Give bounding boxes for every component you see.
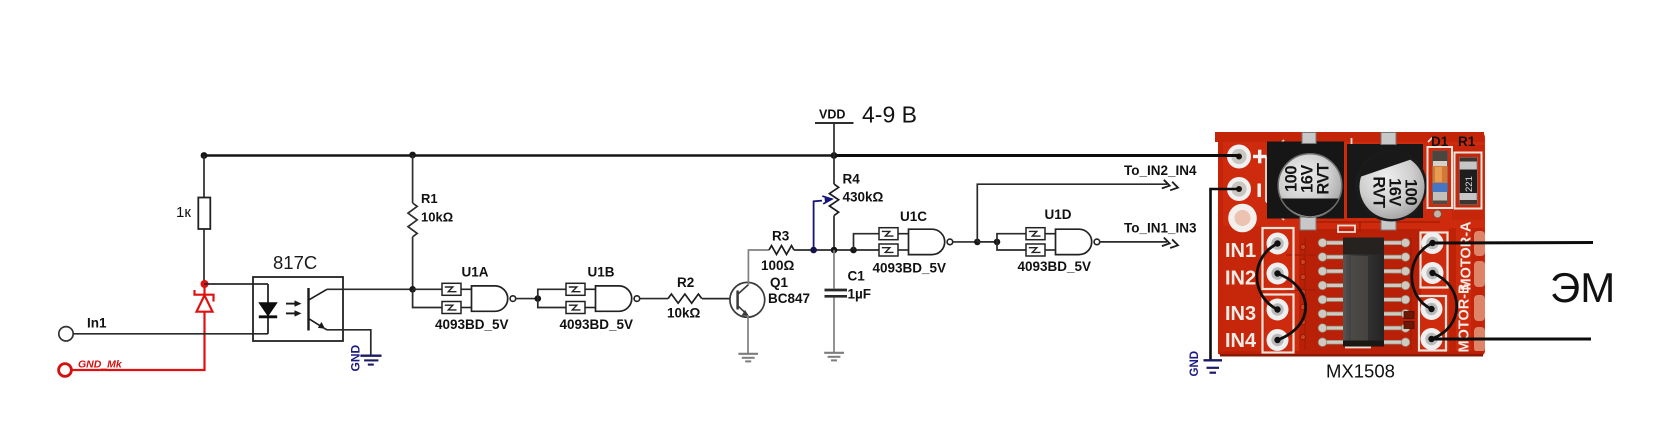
svg-text:430kΩ: 430kΩ (843, 190, 884, 205)
svg-text:In1: In1 (87, 316, 107, 331)
ground opto GND (349, 345, 382, 372)
pcb via near D1 (1434, 210, 1442, 218)
MX1508 PCB board (1215, 132, 1485, 357)
wire U1C out to U1D (977, 241, 997, 243)
capacitor cap1 bottom tab (1300, 217, 1316, 230)
svg-text:U1B: U1B (588, 265, 615, 280)
ground Q1 (738, 354, 758, 362)
wire U1A output (516, 298, 538, 300)
svg-text:MX1508: MX1508 (1326, 361, 1395, 382)
label MOTOR-A (1459, 221, 1475, 291)
smd parts left of MOTOR-B (1404, 312, 1414, 329)
wire R4 bottom lead (833, 216, 835, 250)
label IN4 (1225, 330, 1257, 352)
svg-text:4093BD_5V: 4093BD_5V (1018, 259, 1092, 274)
node junction bus-VDD (831, 152, 838, 159)
capacitor cap2 base (1347, 144, 1423, 218)
IC chip pins left (1318, 239, 1345, 347)
resistor R1 silkscreen box (1455, 153, 1482, 209)
wire U1D input branch (997, 234, 1026, 250)
jumper wire IN1-IN3 (1257, 244, 1278, 310)
svg-text:4093BD_5V: 4093BD_5V (873, 261, 947, 276)
pad MOTOR-A1 (1422, 232, 1444, 254)
svg-text:Q1: Q1 (770, 275, 789, 290)
wire 1k top lead (203, 156, 205, 199)
pcb via dots column (1300, 244, 1305, 339)
wire 1k bottom lead (203, 229, 205, 284)
svg-text:100Ω: 100Ω (761, 258, 795, 273)
label IN3 (1225, 303, 1256, 325)
svg-text:BC847: BC847 (768, 291, 810, 306)
pad IN1 (1267, 233, 1289, 255)
svg-text:R4: R4 (843, 172, 861, 187)
nand-gate U1A (435, 265, 516, 333)
svg-text:RVT: RVT (1315, 163, 1333, 195)
wire VDD to bus (833, 123, 835, 156)
node junction R4-C1 (831, 247, 838, 254)
transistor Q1 BC847 (730, 275, 810, 317)
capacitor cap1 (100 16V RVT) (1278, 154, 1342, 218)
resistor R1(smd) label (1458, 134, 1476, 149)
jumper wire MOTORA2-MOTORB2 (1432, 273, 1457, 339)
svg-text:R2: R2 (677, 275, 694, 290)
wire minus pad to ground (1211, 189, 1240, 360)
capacitor cap2 bottom tab (1381, 217, 1396, 230)
wire U1D output To_IN1_IN3 (1100, 241, 1167, 243)
wire R2 to Q1 base (702, 298, 730, 300)
wire bus to R4 (833, 156, 835, 185)
svg-text:10kΩ: 10kΩ (421, 210, 453, 225)
diode D1 label (1431, 134, 1449, 149)
wire U1B output to R2 (640, 298, 668, 300)
wire MOTOR-A1 to EM (1433, 241, 1594, 245)
node junction zener-anode-net (red) (201, 280, 209, 288)
svg-text:IN1: IN1 (1225, 240, 1256, 262)
node junction U1D branch (994, 239, 1001, 246)
svg-text:MOTOR-A: MOTOR-A (1459, 221, 1475, 291)
node junction R1-opto-U1A (409, 286, 416, 293)
solder joints on pads (1274, 240, 1435, 343)
resistor R2 10k (667, 275, 702, 321)
diode D1 body (1433, 151, 1448, 204)
jumper wire IN2-IN4 (1278, 274, 1306, 341)
label IN1 (1225, 240, 1256, 262)
svg-text:To_IN1_IN3: To_IN1_IN3 (1124, 221, 1197, 236)
svg-text:4093BD_5V: 4093BD_5V (560, 317, 634, 332)
svg-text:VDD: VDD (819, 108, 845, 122)
svg-text:RVT: RVT (1370, 176, 1388, 208)
wire Q1 collector to R3 (748, 250, 769, 285)
resistor R1 smd body (1460, 158, 1478, 205)
resistor R4 430k potentiometer (829, 172, 883, 216)
svg-text:4-9 В: 4-9 В (862, 102, 917, 128)
pad plus (1227, 145, 1251, 169)
svg-text:1µF: 1µF (848, 287, 872, 302)
svg-text:4093BD_5V: 4093BD_5V (435, 317, 509, 332)
capacitor cap1 top tab (1302, 133, 1316, 144)
svg-text:IN3: IN3 (1225, 303, 1256, 325)
pad minus (1227, 177, 1251, 201)
svg-text:GND: GND (349, 345, 363, 372)
net arrow To_IN1_IN3 (1124, 221, 1197, 250)
svg-text:GND: GND (1189, 351, 1201, 377)
svg-text:R1: R1 (421, 191, 438, 206)
svg-text:GND_Mk: GND_Mk (78, 359, 123, 371)
pad MOTOR-A2 (1422, 262, 1444, 284)
silkscreen box IN3-IN4 (1263, 295, 1294, 353)
svg-text:IN4: IN4 (1225, 330, 1257, 352)
wire zener node to opto LED anode (204, 283, 268, 285)
nand-gate U1C (873, 209, 953, 276)
node junction wiper (810, 247, 817, 254)
power VDD (815, 102, 917, 128)
svg-text:IN2: IN2 (1225, 268, 1256, 290)
wire U1C output (953, 241, 978, 243)
pad IN4 (1267, 329, 1289, 351)
IC chip pins right (1383, 239, 1410, 347)
wire zener to GND_Mk (red) (72, 311, 205, 370)
node junction U1C out (974, 239, 981, 246)
svg-text:U1C: U1C (900, 209, 927, 224)
diode D zener (red) (195, 284, 214, 312)
node junction bus-left (201, 152, 208, 159)
silkscreen box IN1-IN2 (1263, 228, 1294, 289)
capacitor C1 1uF (825, 250, 872, 353)
port In1 (59, 316, 107, 341)
silkscreen cap outlines (1266, 137, 1433, 347)
pad IN2 (1267, 263, 1289, 285)
wire R1 bottom lead (412, 237, 414, 289)
ground C1 (824, 353, 844, 361)
svg-text:R1: R1 (1458, 134, 1476, 149)
resistor R3 100 (761, 229, 795, 274)
diode D1 silkscreen box (1428, 147, 1453, 208)
node junction U1A-U1B (535, 295, 542, 302)
wire opto collector to node (327, 288, 413, 290)
wire Q1 emitter to ground (747, 315, 749, 354)
mounting hole (1228, 204, 1257, 233)
wire MOTOR-B2 to EM (1432, 338, 1592, 341)
node junction bus-R1 (409, 152, 416, 159)
jumper wire MOTORA1-MOTORB1 (1412, 243, 1433, 309)
capacitor cap2 top tab (1381, 133, 1396, 145)
pad MOTOR-B2 (1421, 328, 1443, 350)
svg-text:817C: 817C (273, 252, 317, 273)
wire to To_IN2_IN4 (977, 184, 1167, 242)
opto phototransistor (309, 288, 328, 331)
resistor R 1k (176, 198, 210, 230)
wire R1 top lead (412, 155, 414, 203)
opto-coupler U2 817C box (253, 252, 343, 341)
opto light arrows (286, 300, 302, 316)
pad IN3 (1267, 299, 1289, 321)
label EM (electromagnet) (1550, 264, 1615, 311)
svg-text:U1D: U1D (1045, 207, 1072, 222)
svg-text:221: 221 (1464, 176, 1475, 192)
svg-text:MOTOR-B: MOTOR-B (1457, 283, 1473, 352)
port GND_Mk (59, 359, 123, 377)
svg-text:1к: 1к (176, 204, 191, 221)
label MX1508 (1326, 361, 1395, 382)
opto LED (258, 284, 278, 334)
pcb trace details (1286, 222, 1440, 350)
pad MOTOR-B1 (1421, 298, 1443, 320)
svg-text:R3: R3 (772, 229, 790, 244)
label MOTOR-B (1457, 283, 1473, 352)
wire opto emitter to ground (324, 328, 371, 355)
capacitor cap2 (100 16V RVT) (1355, 150, 1427, 222)
silkscreen box MOTOR-B pads (1419, 296, 1446, 351)
R4 wiper arrow (blue) (814, 196, 832, 250)
wire U1C top input branch (854, 234, 880, 250)
svg-text:ЭМ: ЭМ (1550, 264, 1615, 311)
nand-gate U1D (1018, 207, 1100, 274)
ground module GND (1189, 351, 1222, 377)
svg-text:U1A: U1A (462, 265, 489, 280)
resistor R1 10k (408, 191, 453, 237)
capacitor cap1 base (1267, 142, 1344, 219)
IC chip MX1508 body (1343, 238, 1384, 347)
silkscreen box MOTOR-A pads (1421, 233, 1448, 288)
plus symbol (1253, 150, 1267, 164)
svg-text:To_IN2_IN4: To_IN2_IN4 (1124, 163, 1197, 178)
minus symbol (1257, 184, 1260, 198)
svg-text:C1: C1 (848, 269, 866, 284)
label IN2 (1225, 268, 1256, 290)
wire VDD bus (204, 154, 1239, 157)
node junction U1C branch (850, 247, 857, 254)
svg-text:10kΩ: 10kΩ (667, 306, 701, 321)
wire U1A input branch (413, 289, 442, 307)
wire U1B input branch (538, 289, 566, 307)
net arrow To_IN2_IN4 (1124, 163, 1197, 192)
wire R3 to C1 node (794, 249, 879, 251)
wire In1 to opto LED cathode (74, 333, 269, 335)
nand-gate U1B (560, 265, 640, 333)
